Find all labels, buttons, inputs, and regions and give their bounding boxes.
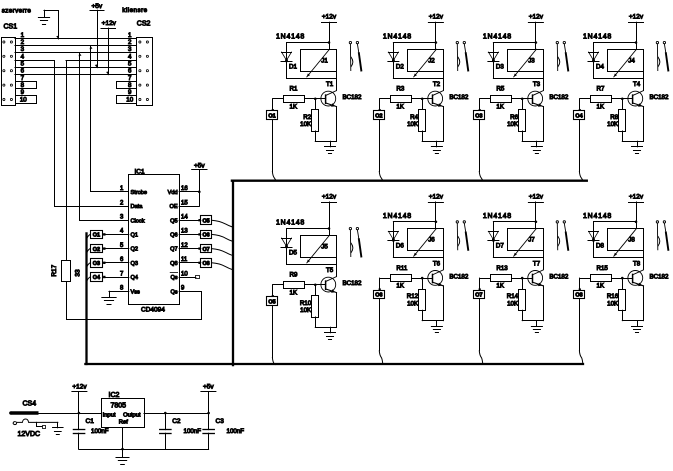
wire +12V down xyxy=(636,202,638,229)
wire DATA down to IC1 pin2 xyxy=(55,61,129,207)
wire coil to collector xyxy=(643,71,645,90)
wire emitter down xyxy=(543,286,545,321)
svg-text:7805: 7805 xyxy=(111,403,127,410)
svg-text:D4: D4 xyxy=(596,63,604,70)
relay armature line xyxy=(614,229,637,257)
node O5 box at J5 xyxy=(272,285,274,297)
wire +5V to pin5 row xyxy=(97,10,99,67)
wire net DATA-OUT CS2 pin4 xyxy=(66,60,136,62)
svg-text:Vss: Vss xyxy=(131,289,141,295)
svg-text:Q7: Q7 xyxy=(170,247,177,253)
relay contact fixed pins xyxy=(656,221,658,223)
svg-text:1K: 1K xyxy=(496,103,504,110)
svg-text:O7: O7 xyxy=(202,247,209,253)
svg-text:+12v: +12v xyxy=(529,193,544,200)
svg-text:+12v: +12v xyxy=(322,14,337,21)
wire O1 down to bus xyxy=(272,120,274,172)
svg-text:10: 10 xyxy=(181,271,188,277)
ground at emitter xyxy=(536,321,538,327)
CS1 pin8 box xyxy=(16,82,37,89)
wire IC1 pin5 to O2 xyxy=(103,248,129,250)
svg-text:T2: T2 xyxy=(433,81,441,88)
svg-text:Q6: Q6 xyxy=(170,233,177,239)
svg-text:4: 4 xyxy=(21,53,25,60)
wire coil to collector xyxy=(643,251,645,270)
wire diode to collector rail xyxy=(393,257,443,259)
svg-text:12VDC: 12VDC xyxy=(18,431,41,438)
svg-text:T8: T8 xyxy=(633,261,641,268)
svg-text:IC2: IC2 xyxy=(109,392,120,399)
wire node to R base xyxy=(580,98,591,100)
wire CS2 pin4 down to R17 xyxy=(66,61,68,260)
wire +12V to diode D1 xyxy=(287,42,330,44)
svg-text:8: 8 xyxy=(21,82,25,89)
wire +12V to diode D5 xyxy=(287,228,330,230)
node O8 box at J8 xyxy=(579,278,581,290)
svg-text:Q8: Q8 xyxy=(170,261,177,267)
emitter lead xyxy=(633,103,644,107)
svg-text:+12v: +12v xyxy=(629,193,644,200)
junction +12V/diode xyxy=(535,41,538,44)
svg-text:Q5: Q5 xyxy=(170,218,177,224)
wire node to R base xyxy=(273,284,284,286)
emitter lead xyxy=(633,282,644,286)
relay contact fixed pins xyxy=(556,41,558,43)
svg-text:1K: 1K xyxy=(396,103,404,110)
svg-text:1: 1 xyxy=(21,32,25,39)
svg-text:T6: T6 xyxy=(433,261,441,268)
wire R to base xyxy=(612,98,633,100)
relay armature line xyxy=(414,229,437,257)
svg-text:kliensre: kliensre xyxy=(122,7,147,14)
wire emitter down xyxy=(443,107,445,142)
wire O6 to bus (curved) xyxy=(212,234,233,241)
emitter lead xyxy=(326,289,337,293)
junction base/pulldown xyxy=(521,98,524,101)
svg-text:5: 5 xyxy=(21,60,25,67)
wire +12V down xyxy=(435,22,437,49)
relay contact blades xyxy=(556,44,558,71)
junction Vdd xyxy=(198,191,201,194)
node O7 box at IC1 pin 12 xyxy=(201,245,212,253)
junction +12V/diode xyxy=(435,41,438,44)
svg-text:+5v: +5v xyxy=(194,163,205,170)
svg-text:4: 4 xyxy=(128,53,132,60)
svg-text:1N4148: 1N4148 xyxy=(583,213,612,220)
wire diode to collector rail xyxy=(287,264,337,266)
svg-text:O2: O2 xyxy=(93,247,100,253)
junction base/pulldown xyxy=(621,98,624,101)
junction +12V/diode xyxy=(635,41,638,44)
svg-text:33: 33 xyxy=(75,269,82,277)
wire +12V down xyxy=(535,22,537,49)
wire sleeve to ground xyxy=(57,422,59,427)
wire O8 down to bus xyxy=(579,299,581,351)
emitter lead xyxy=(433,103,444,107)
svg-text:D2: D2 xyxy=(396,63,404,70)
wire net STROBE row pin2 CS1-CS2 xyxy=(15,45,136,47)
wire net +12V row pin6 CS1-CS2 xyxy=(15,74,136,76)
node O6 box at IC1 pin 13 xyxy=(201,231,212,239)
svg-text:O1: O1 xyxy=(93,233,100,239)
svg-text:R10: R10 xyxy=(300,300,312,307)
svg-text:10: 10 xyxy=(126,97,133,104)
junction base/pulldown xyxy=(621,277,624,280)
wire diode to collector rail xyxy=(287,78,337,80)
svg-text:1N4148: 1N4148 xyxy=(383,213,412,220)
wire O7 to bus (curved) xyxy=(212,249,233,256)
ground at emitter xyxy=(637,141,639,147)
svg-text:10K: 10K xyxy=(407,300,419,307)
relay contact blades xyxy=(349,230,351,257)
collector lead xyxy=(433,270,444,275)
svg-text:CD4094: CD4094 xyxy=(141,307,165,314)
relay coil J3 xyxy=(508,50,544,72)
svg-text:C2: C2 xyxy=(172,418,181,425)
svg-text:Q1: Q1 xyxy=(131,233,138,239)
wire node to R base xyxy=(380,278,391,280)
wire R to base xyxy=(305,284,326,286)
wire net GND row pin1 CS1-CS2 xyxy=(15,38,136,40)
wire +12V to diode D4 xyxy=(594,42,637,44)
CS4 sleeve contact xyxy=(13,419,58,425)
node O4 box at IC1 pin 7 xyxy=(91,273,103,282)
node O4 box at J4 xyxy=(579,99,581,111)
bus left vertical segment xyxy=(85,233,87,364)
wire +12V to pin6 row xyxy=(108,28,110,75)
wire R to base xyxy=(612,278,633,280)
wire IC2 Ref to ground xyxy=(122,428,124,458)
svg-text:+12v: +12v xyxy=(72,383,87,390)
junction +12V/diode xyxy=(328,227,331,230)
svg-text:T7: T7 xyxy=(533,261,541,268)
junction base/pulldown xyxy=(521,277,524,280)
svg-text:+12v: +12v xyxy=(529,14,544,21)
svg-text:14: 14 xyxy=(181,215,188,221)
wire R to base xyxy=(412,278,433,280)
wire coil to collector xyxy=(336,71,338,90)
svg-text:2: 2 xyxy=(128,39,132,46)
wire IC1 pin6 to O3 xyxy=(103,262,129,264)
IC1 pin10 Qs-bar stub unconnected xyxy=(179,277,196,279)
svg-text:CS2: CS2 xyxy=(137,20,151,27)
wire IC1 pin11 to O8 xyxy=(179,262,201,264)
svg-text:O5: O5 xyxy=(202,218,209,224)
svg-text:13: 13 xyxy=(181,229,188,235)
wire node to R base xyxy=(273,98,284,100)
wire coil to collector xyxy=(543,251,545,270)
relay armature line xyxy=(514,49,537,77)
svg-text:CS4: CS4 xyxy=(23,400,37,407)
relay armature line xyxy=(414,49,437,77)
wire IC1 pin4 to O1 xyxy=(103,234,129,236)
svg-text:BC182: BC182 xyxy=(549,94,568,101)
wire emitter rail xyxy=(522,141,543,143)
node O8 box at IC1 pin 11 xyxy=(201,259,212,268)
wire coil to collector xyxy=(543,71,545,90)
svg-text:Data: Data xyxy=(131,204,144,210)
node O3 box at J3 xyxy=(479,99,481,111)
CS2 pin10 box xyxy=(117,96,137,104)
wire STROBE down to IC1 pin1 xyxy=(91,46,129,192)
svg-text:+5v: +5v xyxy=(203,383,214,390)
wire diode to collector rail xyxy=(594,78,644,80)
node O6 box at J6 xyxy=(379,278,381,290)
ground at emitter xyxy=(536,141,538,147)
svg-text:T4: T4 xyxy=(633,81,641,88)
wire O2 to bus (curved) xyxy=(87,249,91,256)
svg-text:O4: O4 xyxy=(575,113,582,119)
emitter lead xyxy=(433,282,444,286)
wire +5V to Vdd pin16 xyxy=(199,170,201,206)
relay contact fixed pins xyxy=(656,41,658,43)
svg-text:5: 5 xyxy=(128,60,132,67)
wire IC1 pin13 to O6 xyxy=(179,234,201,236)
ground at IC2 Ref xyxy=(116,457,129,459)
node O5 box at IC1 pin 14 xyxy=(201,216,212,225)
svg-text:100nF: 100nF xyxy=(91,428,109,435)
wire O5 down to bus xyxy=(272,306,274,358)
svg-text:O1: O1 xyxy=(268,113,275,119)
svg-text:D1: D1 xyxy=(289,63,297,70)
svg-text:R3: R3 xyxy=(396,86,404,93)
wire R to base xyxy=(512,98,533,100)
wire R to base xyxy=(412,98,433,100)
ground at CS4 xyxy=(53,427,64,429)
collector lead xyxy=(326,277,337,282)
wire node to R base xyxy=(380,98,391,100)
relay contact fixed pins xyxy=(349,227,351,229)
relay contact fixed pins xyxy=(456,221,458,223)
bus bottom horizontal segment xyxy=(85,363,583,365)
wire emitter down xyxy=(336,293,338,328)
relay coil J2 xyxy=(408,50,444,72)
wire node to R base xyxy=(480,98,491,100)
svg-text:szerverre: szerverre xyxy=(2,8,32,15)
svg-text:1N4148: 1N4148 xyxy=(483,34,512,41)
svg-text:D5: D5 xyxy=(289,249,297,256)
CS1 pin10 box xyxy=(16,96,37,104)
svg-text:+12v: +12v xyxy=(629,14,644,21)
wire +12V down xyxy=(329,22,331,49)
svg-text:CS1: CS1 xyxy=(4,23,18,30)
wire emitter rail xyxy=(522,320,543,322)
svg-text:10K: 10K xyxy=(507,121,519,128)
svg-text:7: 7 xyxy=(128,75,132,82)
emitter lead xyxy=(533,282,544,286)
svg-text:10K: 10K xyxy=(607,121,619,128)
collector lead xyxy=(633,270,644,275)
svg-text:O7: O7 xyxy=(475,293,482,299)
svg-text:10: 10 xyxy=(20,97,27,104)
wire IC1 pin12 to O7 xyxy=(179,248,201,250)
wire coil to collector xyxy=(443,71,445,90)
wire emitter down xyxy=(543,107,545,142)
relay armature line xyxy=(307,49,330,77)
node O2 box at IC1 pin 5 xyxy=(91,245,103,253)
node O7 box at J7 xyxy=(479,278,481,290)
wire diode to collector rail xyxy=(393,78,443,80)
relay armature line xyxy=(614,49,637,77)
svg-text:O5: O5 xyxy=(268,299,275,305)
svg-text:+5v: +5v xyxy=(91,3,102,10)
svg-text:100nF: 100nF xyxy=(184,428,202,435)
wire O5 to bus (curved) xyxy=(212,220,233,227)
svg-text:BC182: BC182 xyxy=(343,94,362,101)
connector CS1 body xyxy=(2,38,16,106)
wire diode to collector rail xyxy=(493,257,543,259)
svg-text:D3: D3 xyxy=(496,63,504,70)
svg-text:T3: T3 xyxy=(533,81,541,88)
wire net DATA-IN CS1 pin4 xyxy=(15,60,54,62)
bus top horizontal segment xyxy=(232,180,587,182)
ground at emitter xyxy=(436,141,438,147)
svg-text:8: 8 xyxy=(128,82,132,89)
wire IC1 pin14 to O5 xyxy=(179,220,201,222)
svg-text:R13: R13 xyxy=(496,265,508,272)
junction +12V/diode xyxy=(435,221,438,224)
wire O3 to bus (curved) xyxy=(87,263,91,270)
svg-text:1N4148: 1N4148 xyxy=(483,213,512,220)
svg-text:D6: D6 xyxy=(396,243,404,250)
relay armature line xyxy=(307,235,330,263)
junction base/pulldown xyxy=(314,284,317,287)
node O1 box at J1 xyxy=(272,99,274,111)
relay contact blades xyxy=(349,44,351,71)
relay contact blades xyxy=(656,44,658,71)
wire CS4 to C1/IC2 input xyxy=(37,413,102,415)
wire O4 to bus (curved) xyxy=(87,277,91,284)
CS4 switch pin stub xyxy=(37,422,43,426)
svg-text:1K: 1K xyxy=(290,289,298,296)
collector lead xyxy=(633,91,644,96)
svg-text:O6: O6 xyxy=(202,233,209,239)
svg-text:1N4148: 1N4148 xyxy=(276,220,305,227)
svg-text:1N4148: 1N4148 xyxy=(383,34,412,41)
svg-text:R16: R16 xyxy=(607,293,619,300)
svg-text:15: 15 xyxy=(181,200,188,206)
wire diode to collector rail xyxy=(594,257,644,259)
svg-text:1N4148: 1N4148 xyxy=(276,34,305,41)
relay contact blades xyxy=(656,223,658,250)
resistor R17 xyxy=(62,261,71,282)
relay coil J1 xyxy=(301,50,337,72)
junction +12V/diode xyxy=(328,41,331,44)
wire emitter down xyxy=(643,286,645,321)
svg-text:Q4: Q4 xyxy=(131,275,138,281)
ground top-left xyxy=(44,10,46,17)
svg-text:6: 6 xyxy=(128,68,132,75)
wire +12V to diode D6 xyxy=(393,221,436,223)
svg-text:Ref: Ref xyxy=(119,419,128,425)
wire Vdd pin16 stub xyxy=(179,191,199,193)
wire coil to collector xyxy=(443,251,445,270)
svg-text:R4: R4 xyxy=(410,114,418,121)
relay contact fixed pins xyxy=(349,41,351,43)
junction arrow on pin1 row xyxy=(56,36,59,39)
junction base/pulldown xyxy=(421,98,424,101)
junction base/pulldown xyxy=(314,98,317,101)
emitter lead xyxy=(326,103,337,107)
svg-text:10K: 10K xyxy=(300,307,312,314)
svg-text:8: 8 xyxy=(120,286,124,292)
wire node to R base xyxy=(480,278,491,280)
wire +12V down xyxy=(435,202,437,229)
svg-text:1K: 1K xyxy=(290,103,298,110)
svg-text:R12: R12 xyxy=(407,293,419,300)
wire emitter down xyxy=(336,107,338,142)
svg-text:O3: O3 xyxy=(93,261,100,267)
emitter lead xyxy=(533,103,544,107)
svg-text:O6: O6 xyxy=(375,293,382,299)
ground at emitter xyxy=(436,321,438,327)
wire emitter rail xyxy=(315,327,336,329)
svg-text:Output: Output xyxy=(123,412,141,418)
svg-text:+12v: +12v xyxy=(429,14,444,21)
svg-text:R8: R8 xyxy=(610,114,618,121)
wire +5V rail down to C3 xyxy=(208,392,210,430)
collector lead xyxy=(326,91,337,96)
wire +12V to input rail xyxy=(78,392,80,413)
IC1 CD4094 body xyxy=(129,175,180,305)
wire CLOCK down to IC1 pin3 xyxy=(80,53,129,221)
svg-text:7: 7 xyxy=(120,271,124,277)
svg-text:C3: C3 xyxy=(216,418,225,425)
svg-text:R11: R11 xyxy=(396,265,407,272)
wire emitter rail xyxy=(422,141,443,143)
wire +12V to diode D3 xyxy=(493,42,536,44)
svg-text:Input: Input xyxy=(103,412,116,418)
svg-text:1N4148: 1N4148 xyxy=(583,34,612,41)
wire O4 down to bus xyxy=(579,120,581,172)
svg-text:Q3: Q3 xyxy=(131,261,138,267)
svg-text:OE: OE xyxy=(170,204,178,210)
node O2 box at J2 xyxy=(379,99,381,111)
svg-text:1: 1 xyxy=(128,32,132,39)
wire O1 to bus (curved) xyxy=(87,234,91,241)
wire R to base xyxy=(305,98,326,100)
relay coil J7 xyxy=(508,229,544,251)
svg-text:O3: O3 xyxy=(475,113,482,119)
wire +12V to diode D2 xyxy=(393,42,436,44)
svg-text:7: 7 xyxy=(21,75,25,82)
relay contact blades xyxy=(456,44,458,71)
relay coil J5 xyxy=(301,236,337,258)
wire emitter rail xyxy=(622,320,643,322)
svg-text:R7: R7 xyxy=(597,86,605,93)
wire coil to collector xyxy=(336,257,338,276)
svg-text:O2: O2 xyxy=(375,113,382,119)
wire +12V down xyxy=(636,22,638,49)
relay contact blades xyxy=(456,223,458,250)
svg-text:R9: R9 xyxy=(290,272,298,279)
wire emitter rail xyxy=(315,141,336,143)
svg-text:1K: 1K xyxy=(496,283,504,290)
wire Vss pin8 to ground xyxy=(109,291,129,293)
wire ground to pin1 row xyxy=(44,11,59,39)
svg-text:R15: R15 xyxy=(597,265,609,272)
svg-text:T1: T1 xyxy=(326,81,334,88)
ground at emitter xyxy=(330,327,332,333)
svg-text:BC182: BC182 xyxy=(449,273,468,280)
svg-text:Qs: Qs xyxy=(170,275,177,281)
collector lead xyxy=(533,270,544,275)
wire ground rail PSU xyxy=(79,449,209,451)
svg-text:9: 9 xyxy=(181,286,185,292)
wire O8 to bus (curved) xyxy=(212,263,233,270)
svg-text:O4: O4 xyxy=(93,275,100,281)
svg-text:Vdd: Vdd xyxy=(168,190,178,196)
